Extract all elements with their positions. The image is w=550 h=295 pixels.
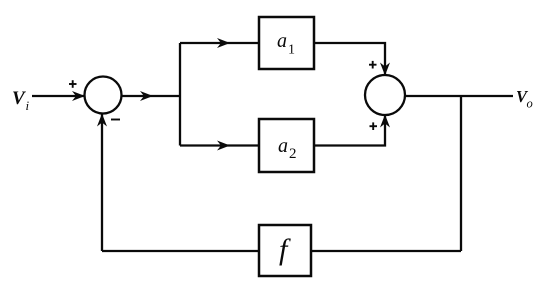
arrowhead up into S2 bottom — [380, 115, 390, 128]
plus sign at S2 top — [369, 61, 377, 69]
label a2 — [278, 135, 297, 162]
wire bottom branch to block a2 — [180, 144, 259, 146]
wire feedback bottom left — [102, 250, 259, 252]
block f — [259, 225, 311, 276]
svg-text:V: V — [12, 88, 26, 109]
svg-text:a: a — [277, 30, 287, 52]
summing junction S2 — [365, 75, 405, 115]
block a1 — [259, 17, 314, 69]
wire a2 to S2 bottom — [314, 115, 385, 146]
svg-text:a: a — [278, 135, 288, 157]
minus sign at S1 feedback — [111, 119, 120, 121]
wire a1 to S2 top — [314, 43, 385, 75]
svg-text:i: i — [26, 98, 30, 113]
wire feedback right vertical — [460, 96, 462, 251]
arrowhead down into S2 top — [380, 63, 390, 76]
arrowhead on top branch — [217, 38, 230, 48]
plus sign at S2 bottom — [370, 122, 378, 130]
plus sign at S1 input — [69, 80, 77, 88]
svg-text:1: 1 — [288, 43, 295, 58]
wire input Vi to summer S1 — [32, 95, 84, 97]
svg-text:2: 2 — [289, 146, 297, 162]
svg-text:o: o — [527, 97, 533, 111]
label f — [279, 233, 291, 266]
arrowhead into S1 — [72, 91, 85, 101]
arrowhead on wire S1 to branch — [140, 91, 153, 101]
svg-text:f: f — [279, 233, 291, 266]
block a2 — [259, 119, 314, 172]
label a1 — [277, 30, 295, 58]
arrowhead up into S1 bottom — [97, 114, 107, 127]
wire feedback up into S1 — [101, 114, 103, 251]
arrowhead on bottom branch — [217, 141, 230, 151]
summing junction S1 — [85, 77, 122, 114]
node Vi label — [12, 88, 30, 113]
wire S1 to branch node — [122, 95, 181, 97]
wire output S2 to Vo — [405, 95, 513, 97]
node Vo label — [516, 87, 533, 111]
wire branch vertical — [179, 43, 181, 146]
wire top branch to block a1 — [180, 42, 259, 44]
wire feedback bottom right — [311, 250, 461, 252]
